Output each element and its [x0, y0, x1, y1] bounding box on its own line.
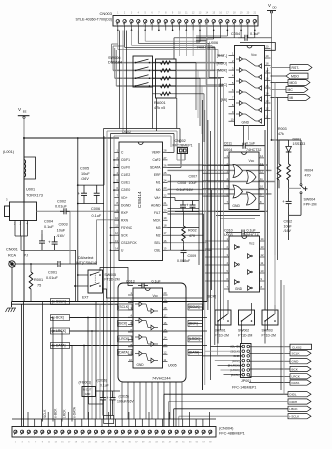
- connector CN004: [12, 427, 216, 444]
- svg-text:C011: C011: [224, 141, 232, 145]
- svg-text:SCK: SCK: [121, 233, 129, 237]
- label JP001 pins: [228, 345, 240, 377]
- connector CN002: [173, 139, 193, 154]
- svg-text:CN002: CN002: [175, 139, 186, 143]
- svg-text:DA/select: DA/select: [78, 256, 93, 260]
- svg-text:e-DATA: e-DATA: [73, 406, 77, 418]
- svg-text:1SS133: 1SS133: [293, 142, 306, 146]
- svg-text:[e-SCLK]: [e-SCLK]: [52, 300, 66, 304]
- switch SW001: [215, 310, 231, 325]
- wire U005 enclosure: [118, 283, 186, 382]
- svg-text:SCLK: SCLK: [43, 409, 47, 418]
- label BCK mid: [207, 295, 216, 299]
- inductor L001: [3, 138, 36, 190]
- svg-text:Vcc: Vcc: [251, 53, 257, 57]
- svg-text:e-BCK: e-BCK: [54, 408, 58, 418]
- wire right channel verticals: [168, 18, 212, 302]
- wire U005 inputs: [70, 268, 203, 420]
- svg-text:C1/E2: C1/E2: [121, 173, 130, 177]
- label U006 inputs: [217, 54, 227, 102]
- svg-text:LRCK: LRCK: [292, 375, 301, 379]
- svg-text:RXN: RXN: [121, 218, 129, 222]
- svg-text:C005: C005: [80, 167, 89, 171]
- svg-text:VA+: VA+: [154, 196, 160, 200]
- svg-text:[e-BCK]: [e-BCK]: [52, 316, 64, 320]
- capacitor C005: [78, 167, 91, 204]
- diode D001: [271, 139, 292, 164]
- svg-text:/16V: /16V: [80, 177, 89, 181]
- wire CN003 pin drops: [117, 26, 256, 31]
- capacitor C001: [46, 261, 64, 280]
- svg-text:74VHC14: 74VHC14: [243, 233, 259, 237]
- svg-text:(C016): (C016): [97, 379, 107, 383]
- svg-text:DATA: DATA: [292, 381, 301, 385]
- svg-text:i-BCK: i-BCK: [290, 407, 299, 411]
- IC U002 CS8414: [114, 142, 168, 261]
- IC U005 74VHC244: [128, 288, 168, 368]
- svg-text:GND: GND: [137, 363, 145, 367]
- resistor R003 pair: [277, 164, 290, 193]
- wire JP001 right: [249, 347, 290, 383]
- flag SCLK: [290, 351, 311, 356]
- svg-text:GND: GND: [85, 393, 91, 396]
- wire RCA to C001: [15, 263, 54, 265]
- wire ground bus: [12, 302, 208, 308]
- label D001: [293, 138, 306, 147]
- svg-text:R002: R002: [188, 229, 197, 233]
- svg-text:[BCK]: [BCK]: [119, 322, 128, 326]
- svg-text:IN OUT: IN OUT: [83, 389, 92, 392]
- wire bus CN003 to SW006: [112, 31, 228, 87]
- label EXT: [82, 296, 89, 300]
- IC U003 74VHC14: [224, 236, 265, 292]
- svg-text:0.01uF: 0.01uF: [46, 276, 59, 280]
- wire bus to U002 top: [104, 31, 181, 420]
- capacitor C003: [48, 223, 67, 251]
- svg-text:D001: D001: [293, 138, 302, 142]
- svg-text:DGND: DGND: [121, 203, 131, 207]
- wire bottom flags: [164, 394, 288, 427]
- svg-text:SEL: SEL: [154, 241, 160, 245]
- svg-text:GND: GND: [232, 204, 240, 208]
- wire gate inputs: [203, 166, 230, 282]
- svg-text:[DATA]: [DATA]: [119, 351, 129, 355]
- IC U006 74VHC246: [229, 43, 276, 126]
- wire C005 C006 rails: [77, 136, 104, 302]
- wire U005 to bus: [122, 382, 182, 419]
- svg-text:75: 75: [37, 284, 41, 288]
- svg-text:(C015): (C015): [119, 395, 129, 399]
- capacitor C002: [55, 200, 70, 215]
- flag U005 nets: [118, 304, 203, 355]
- wire bus CN003 to U006: [118, 31, 224, 85]
- wire RA001 outputs: [176, 63, 204, 142]
- svg-text:C012: C012: [284, 220, 293, 224]
- svg-text:47k: 47k: [278, 132, 284, 136]
- capacitor C009: [177, 246, 196, 263]
- svg-text:STLE-40360-T700(D3): STLE-40360-T700(D3): [75, 18, 112, 22]
- flag MDO: [286, 73, 308, 79]
- svg-text:74VHC244: 74VHC244: [152, 377, 171, 381]
- svg-text:U005: U005: [168, 364, 177, 368]
- svg-text:M3: M3: [156, 226, 161, 230]
- svg-text:SW004: SW004: [304, 198, 316, 202]
- svg-text:SDATA: SDATA: [150, 166, 161, 170]
- svg-text:TORX173: TORX173: [26, 194, 43, 198]
- flag MI: [288, 95, 310, 101]
- svg-text:Cs/E1: Cs/E1: [121, 181, 130, 185]
- svg-text:0.1uF: 0.1uF: [44, 225, 54, 229]
- switch SW004: [279, 140, 308, 215]
- wire far right verticals: [268, 68, 278, 261]
- svg-text:74HCT32: 74HCT32: [246, 148, 261, 152]
- wire MC net: [271, 89, 287, 91]
- label U002: [122, 130, 131, 134]
- svg-text:GND: GND: [242, 121, 250, 125]
- label U004: [224, 148, 262, 152]
- wire switch connections: [218, 250, 284, 395]
- svg-text:U001: U001: [26, 188, 35, 192]
- svg-text:[LRCK]: [LRCK]: [119, 337, 130, 341]
- wire flags drop: [22, 302, 73, 427]
- flag MD3: [288, 80, 310, 86]
- resistor R001: [29, 263, 43, 301]
- svg-text:SW001: SW001: [215, 329, 226, 333]
- IC U004 74HCT32: [224, 152, 264, 210]
- label R003: [278, 127, 287, 136]
- svg-text:74VHC246: 74VHC246: [197, 46, 216, 50]
- svg-text:C002: C002: [57, 200, 66, 204]
- capacitor C006: [91, 185, 102, 218]
- wire below U004: [216, 212, 265, 219]
- resistor R002: [182, 212, 197, 246]
- svg-text:V: V: [268, 3, 271, 8]
- svg-text:CaF2: CaF2: [152, 158, 160, 162]
- wire CN004 drops: [12, 412, 216, 427]
- wire C001 right: [64, 220, 119, 264]
- svg-text:C004: C004: [44, 220, 53, 224]
- wire VDD rail down: [271, 39, 273, 140]
- svg-text:[MDO]: [MDO]: [217, 61, 227, 65]
- svg-text:[MCK]: [MCK]: [217, 69, 227, 73]
- svg-text:C010: C010: [224, 229, 233, 233]
- svg-text:0.1uF: 0.1uF: [247, 229, 257, 233]
- wire CN002 down: [168, 154, 186, 168]
- svg-text:CBL: CBL: [154, 249, 161, 253]
- svg-text:GND: GND: [292, 360, 300, 364]
- svg-text:FT2D-2M: FT2D-2M: [104, 278, 119, 282]
- svg-text:(CN004): (CN004): [219, 427, 234, 431]
- svg-text:MC: MC: [288, 88, 294, 92]
- svg-text:0.1uF: 0.1uF: [152, 280, 162, 284]
- svg-text:FFC2BMEP1: FFC2BMEP1: [173, 144, 193, 148]
- svg-text:C009: C009: [188, 254, 197, 258]
- optical receiver U001 TORX173: [5, 188, 43, 251]
- svg-text:C0/F1: C0/F1: [121, 158, 130, 162]
- flag MC: [286, 87, 308, 93]
- wire gray band: [264, 130, 266, 310]
- svg-text:RST-: RST-: [292, 66, 300, 70]
- label U005: [152, 364, 177, 381]
- svg-text:C2/E0: C2/E0: [121, 188, 130, 192]
- svg-text:/16V: /16V: [56, 234, 65, 238]
- svg-text:+: +: [282, 199, 285, 204]
- svg-text:470: 470: [189, 234, 195, 238]
- flag DIDL: [288, 392, 311, 397]
- svg-text:EE: EE: [23, 110, 27, 114]
- svg-text:0.1uF: 0.1uF: [100, 384, 109, 388]
- label SW006: [108, 56, 122, 65]
- svg-text:0.1uF: 0.1uF: [250, 32, 260, 36]
- flag i-BCK: [288, 406, 311, 411]
- label SW001: [215, 329, 229, 338]
- power VEE: [18, 107, 30, 138]
- svg-text:/16V: /16V: [283, 229, 292, 233]
- svg-text:C007: C007: [189, 175, 198, 179]
- capacitor C007 C008: [168, 175, 200, 212]
- svg-text:+: +: [106, 395, 109, 400]
- svg-text:47k x5: 47k x5: [154, 106, 165, 110]
- flag e-SCLK e-BCK e-LRCK e-DATA: [51, 299, 208, 349]
- svg-text:RA001: RA001: [154, 101, 166, 105]
- wire FIL001 nets: [89, 391, 121, 424]
- svg-text:MDO: MDO: [291, 74, 299, 78]
- svg-text:U004: U004: [224, 148, 233, 152]
- flag RST-: [290, 65, 312, 71]
- svg-text:R001: R001: [34, 278, 43, 282]
- svg-text:RXP: RXP: [121, 211, 129, 215]
- flag i-SCLK: [288, 414, 311, 419]
- switch SW006: [133, 56, 153, 87]
- label SW004: [304, 198, 317, 207]
- wire VEE horizontal bus: [23, 137, 119, 139]
- svg-text:R004: R004: [305, 169, 314, 173]
- svg-text:PJ: PJ: [24, 254, 28, 258]
- flag GND: [290, 359, 311, 364]
- wire MI net: [271, 97, 289, 99]
- connector CN003: [113, 12, 258, 27]
- svg-text:INT(CS8414): INT(CS8414): [76, 261, 97, 265]
- capacitor C010: [224, 229, 260, 236]
- svg-text:M2: M2: [156, 233, 161, 237]
- resistor array RA001: [153, 59, 177, 98]
- wire CN003 right pins: [234, 31, 255, 38]
- svg-text:Cu/F0: Cu/F0: [121, 166, 130, 170]
- svg-text:RCA: RCA: [8, 254, 16, 258]
- wire MDO net: [271, 75, 287, 77]
- svg-text:10uF: 10uF: [284, 224, 293, 228]
- ground: [6, 308, 17, 312]
- label SW002: [238, 329, 252, 338]
- svg-text:DIDL: DIDL: [290, 393, 297, 397]
- svg-text:C054: C054: [231, 32, 240, 36]
- label RA001: [154, 101, 166, 110]
- wire MD3 net: [271, 82, 289, 84]
- svg-text:CN003: CN003: [100, 11, 113, 16]
- svg-text:Vcc: Vcc: [249, 159, 255, 163]
- svg-text:C003: C003: [59, 223, 68, 227]
- capacitor C016: [97, 379, 109, 405]
- svg-text:100uF/16V: 100uF/16V: [117, 399, 134, 403]
- label JP001: [232, 379, 256, 390]
- svg-text:MCK: MCK: [153, 218, 161, 222]
- connector CN001 RCA: [6, 248, 28, 302]
- svg-text:+: +: [186, 203, 189, 208]
- svg-text:+: +: [48, 240, 51, 245]
- svg-text:FSYNC: FSYNC: [121, 226, 133, 230]
- svg-text:0.1uF/16V: 0.1uF/16V: [177, 188, 194, 192]
- svg-text:C013: C013: [126, 280, 135, 284]
- wire U005 outputs: [188, 307, 203, 390]
- svg-text:M0: M0: [156, 188, 161, 192]
- svg-text:SW003: SW003: [262, 329, 273, 333]
- wire VEE vertical: [23, 138, 25, 302]
- flag BCK: [290, 366, 311, 371]
- capacitor C013: [126, 280, 161, 289]
- svg-text:CS8414: CS8414: [137, 191, 142, 208]
- svg-text:SW002: SW002: [238, 329, 249, 333]
- svg-text:GND: GND: [235, 287, 243, 291]
- svg-text:SW005: SW005: [104, 273, 116, 277]
- flag LRCK: [290, 374, 311, 379]
- svg-text:C008: C008: [178, 181, 187, 185]
- svg-text:Vcc: Vcc: [153, 294, 159, 298]
- svg-text:[SCLK]: [SCLK]: [119, 305, 130, 309]
- label CN004: [219, 427, 245, 436]
- svg-text:CS12/FCK: CS12/FCK: [121, 241, 138, 245]
- svg-text:FPF-2M: FPF-2M: [304, 202, 317, 206]
- label C012: [283, 220, 293, 234]
- wire TORX to RXP: [37, 210, 120, 212]
- svg-text:LRCK: LRCK: [63, 409, 67, 418]
- svg-text:C001: C001: [48, 271, 57, 275]
- svg-text:U006: U006: [209, 41, 218, 45]
- svg-text:ERF: ERF: [154, 173, 161, 177]
- svg-text:[RST-]: [RST-]: [217, 54, 227, 58]
- capacitor C011: [223, 141, 264, 148]
- svg-text:i-SCLK: i-SCLK: [290, 415, 301, 419]
- flag CLK02: [290, 344, 312, 349]
- filter FIL001: [79, 381, 96, 397]
- svg-text:MI: MI: [290, 96, 294, 100]
- svg-text:0.01uF: 0.01uF: [55, 205, 68, 209]
- svg-text:SW006: SW006: [108, 56, 120, 60]
- wire C003 C004 join: [21, 211, 76, 301]
- svg-text:Vcc: Vcc: [249, 242, 255, 246]
- capacitor C054: [174, 32, 272, 59]
- svg-text:CLK02: CLK02: [292, 345, 302, 349]
- svg-text:FT1D-2M: FT1D-2M: [262, 333, 276, 337]
- svg-text:C006: C006: [91, 207, 100, 211]
- svg-text:VERF: VERF: [152, 151, 161, 155]
- svg-text:FFC-48BMEP1: FFC-48BMEP1: [219, 432, 245, 436]
- wire RST- net: [271, 67, 291, 69]
- svg-text:10uF: 10uF: [57, 229, 66, 233]
- svg-text:(FIL001): (FIL001): [79, 381, 92, 385]
- svg-text:FT1D-2M: FT1D-2M: [238, 333, 252, 337]
- svg-text:0.1uF: 0.1uF: [92, 214, 102, 218]
- switch SW002: [239, 310, 255, 325]
- connector JP001: [241, 344, 252, 378]
- svg-text:[MI]: [MI]: [221, 98, 227, 102]
- svg-text:DD: DD: [273, 6, 277, 10]
- wire JP001 left: [203, 347, 243, 375]
- svg-text:(L001): (L001): [3, 150, 15, 154]
- wire left channel verticals: [203, 63, 224, 390]
- svg-text:R003: R003: [278, 127, 287, 131]
- label U006: [197, 41, 219, 50]
- svg-text:DIDH: DIDH: [290, 400, 298, 404]
- capacitor C004: [39, 220, 54, 251]
- wire U006 gnd down: [244, 126, 249, 146]
- svg-text:0.068uF: 0.068uF: [177, 259, 191, 263]
- svg-text:FT1D-2M: FT1D-2M: [215, 333, 229, 337]
- svg-text:CN001: CN001: [6, 248, 18, 252]
- svg-text:MD3: MD3: [290, 81, 297, 85]
- svg-text:470: 470: [305, 173, 311, 177]
- svg-text:10uF: 10uF: [189, 181, 198, 185]
- capacitor C015: [106, 394, 134, 405]
- svg-text:DSS104: DSS104: [108, 61, 122, 65]
- label DA select: [76, 256, 97, 265]
- label CN003: [75, 11, 112, 22]
- svg-text:AGND: AGND: [151, 203, 161, 207]
- switch SW005: [88, 270, 120, 293]
- label U003: [224, 233, 259, 237]
- label SW003: [262, 329, 276, 338]
- svg-text:U003: U003: [224, 233, 233, 237]
- svg-text:M1: M1: [156, 181, 161, 185]
- svg-text:EXT: EXT: [82, 296, 89, 300]
- svg-text:0.1uF: 0.1uF: [246, 141, 256, 145]
- svg-text:BCK: BCK: [292, 367, 299, 371]
- wire U002 gray traces: [168, 165, 276, 310]
- flag DIDH: [288, 399, 311, 404]
- power VDD: [267, 3, 277, 39]
- svg-text:SCLK: SCLK: [292, 352, 301, 356]
- label R004: [305, 169, 314, 178]
- switch SW003: [262, 310, 278, 325]
- svg-text:FFC-14BMEP1: FFC-14BMEP1: [232, 386, 256, 390]
- capacitor C012: [282, 193, 301, 240]
- svg-text:VD+: VD+: [121, 196, 128, 200]
- svg-text:FILT: FILT: [154, 211, 161, 215]
- svg-text:10uF: 10uF: [81, 172, 90, 176]
- flag DATA: [290, 380, 311, 385]
- label vertical nets: [43, 406, 77, 418]
